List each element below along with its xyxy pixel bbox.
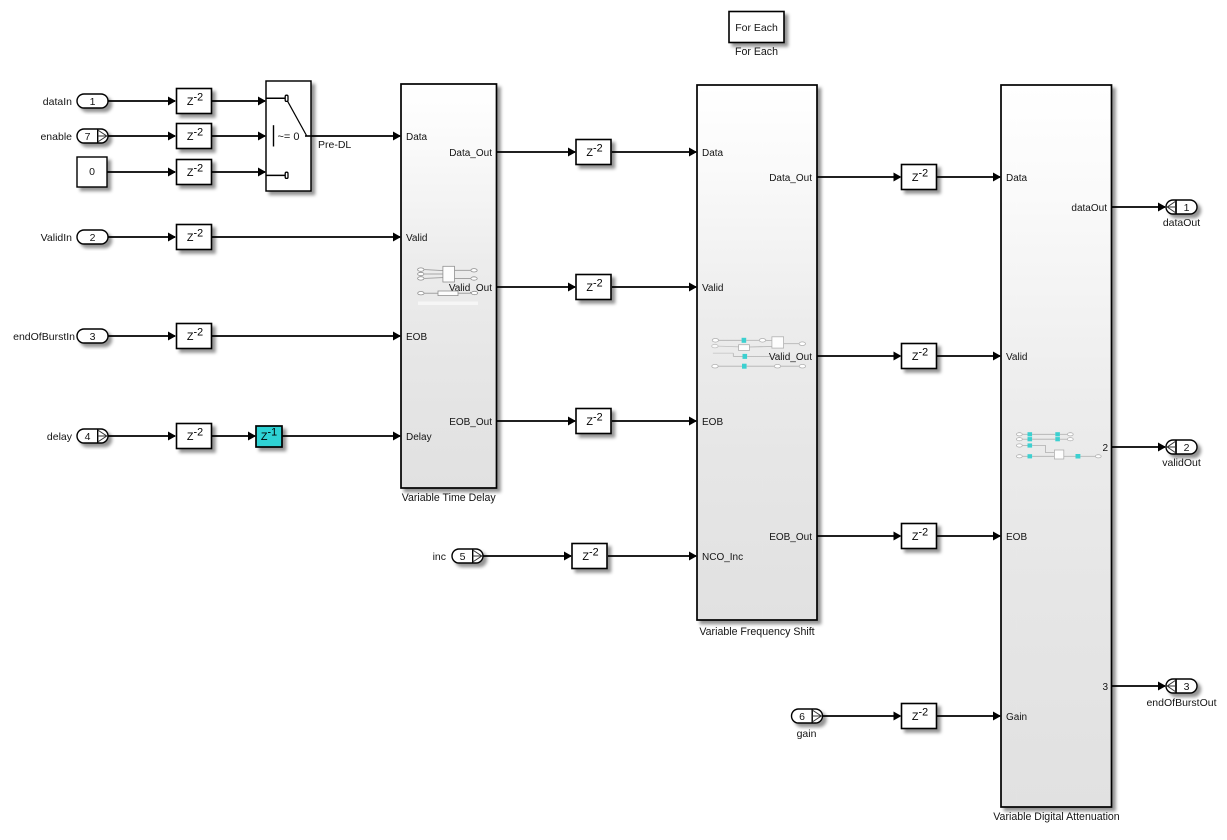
wire Z2_4 to VTD Valid xyxy=(212,233,401,242)
inport inc 5 xyxy=(452,549,483,563)
subsystem VFS icon thumbnail xyxy=(712,337,806,369)
outport endOfBurstOut 3 xyxy=(1166,679,1197,693)
delay Z2_1 xyxy=(177,89,212,114)
svg-text:Data: Data xyxy=(1006,173,1028,184)
delay Z2_4 xyxy=(177,225,212,250)
svg-text:validOut: validOut xyxy=(1162,457,1201,469)
svg-text:endOfBurstOut: endOfBurstOut xyxy=(1146,697,1216,709)
svg-text:7: 7 xyxy=(85,131,91,143)
delay Z2_12 xyxy=(902,344,937,369)
svg-text:1: 1 xyxy=(90,96,96,108)
delay Z2_8 xyxy=(576,275,611,300)
svg-text:6: 6 xyxy=(799,711,805,723)
svg-text:dataOut: dataOut xyxy=(1163,217,1200,229)
svg-text:Valid_Out: Valid_Out xyxy=(769,352,812,363)
svg-text:inc: inc xyxy=(433,551,446,563)
svg-text:NCO_Inc: NCO_Inc xyxy=(702,552,743,563)
subsystem VDA icon thumbnail xyxy=(1017,432,1102,459)
svg-text:Gain: Gain xyxy=(1006,712,1027,723)
delay Z2_2 xyxy=(177,124,212,149)
svg-text:Pre-DL: Pre-DL xyxy=(318,139,351,151)
delay Z2_5 xyxy=(177,324,212,349)
For Each block xyxy=(729,12,784,43)
wire VDA validOut to outport 2 xyxy=(1112,443,1166,452)
inport ValidIn 2 xyxy=(77,230,108,244)
wire Z2_1 to switch input 1 xyxy=(212,97,266,106)
delay Z2_3 xyxy=(177,160,212,185)
delay Z1 cyan xyxy=(256,426,282,447)
svg-text:Data_Out: Data_Out xyxy=(769,173,812,184)
wire Z2_9 to VFS EOB xyxy=(612,417,697,426)
svg-text:4: 4 xyxy=(85,431,91,443)
wire Z1 cyan to VTD Delay xyxy=(282,432,401,441)
delay Z2_7 xyxy=(576,140,611,165)
svg-text:endOfBurstIn: endOfBurstIn xyxy=(13,331,75,343)
wire endOfBurstIn to Z2_5 xyxy=(108,332,176,341)
inport gain 6 xyxy=(792,709,823,723)
svg-text:0: 0 xyxy=(89,166,95,178)
subsystem VTD icon thumbnail xyxy=(418,266,478,305)
svg-text:gain: gain xyxy=(797,728,817,740)
svg-text:Valid: Valid xyxy=(406,233,428,244)
inport endOfBurstIn 3 xyxy=(77,329,108,343)
wire Z2_7 to VFS Data xyxy=(612,148,697,157)
svg-text:Valid: Valid xyxy=(1006,352,1028,363)
wire Z2_8 to VFS Valid xyxy=(612,283,697,292)
delay Z2_10 xyxy=(572,544,607,569)
delay Z2_11 xyxy=(902,165,937,190)
wire Z2_11 to VDA Data xyxy=(937,173,1001,182)
inport dataIn 1 xyxy=(77,94,108,108)
svg-text:2: 2 xyxy=(1184,442,1190,454)
wire VTD EOB_Out to Z2_9 xyxy=(497,417,576,426)
svg-text:EOB: EOB xyxy=(406,332,427,343)
svg-text:3: 3 xyxy=(1102,682,1108,693)
inport enable 7 xyxy=(77,129,108,143)
constant 0 block xyxy=(77,157,107,187)
wire inc to Z2_10 xyxy=(483,552,572,561)
switch Pre-DL xyxy=(266,81,311,191)
wire VFS EOB_Out to Z2_13 xyxy=(817,532,902,541)
svg-text:Variable Digital Attenuation: Variable Digital Attenuation xyxy=(993,811,1120,823)
wire Z2_13 to VDA EOB xyxy=(937,532,1001,541)
wire constant to Z2_3 xyxy=(107,168,176,177)
wire Z2_2 to switch input 2 xyxy=(212,132,266,141)
svg-text:Variable Time Delay: Variable Time Delay xyxy=(402,492,497,504)
svg-text:2: 2 xyxy=(90,232,96,244)
wire Z2_5 to VTD EOB xyxy=(212,332,401,341)
delay Z2_14 xyxy=(902,704,937,729)
wire Z2_3 to switch input 3 xyxy=(212,168,266,177)
wire VFS Data_Out to Z2_11 xyxy=(817,173,902,182)
svg-text:delay: delay xyxy=(47,431,73,443)
wire enable to Z2_2 xyxy=(107,132,176,141)
svg-text:For Each: For Each xyxy=(735,22,778,34)
outport dataOut 1 xyxy=(1166,200,1197,214)
outport validOut 2 xyxy=(1166,440,1197,454)
wire Z2_12 to VDA Valid xyxy=(937,352,1001,361)
subsystem Variable Frequency Shift xyxy=(697,85,817,620)
wire gain to Z2_14 xyxy=(822,712,902,721)
svg-text:EOB: EOB xyxy=(702,417,723,428)
svg-text:dataIn: dataIn xyxy=(43,96,72,108)
wire ValidIn to Z2_4 xyxy=(108,233,176,242)
wire VTD Valid_Out to Z2_8 xyxy=(497,283,576,292)
svg-text:Valid: Valid xyxy=(702,283,724,294)
subsystem Variable Digital Attenuation xyxy=(1001,85,1112,807)
svg-text:3: 3 xyxy=(1184,681,1190,693)
svg-text:1: 1 xyxy=(1184,202,1190,214)
svg-text:Data: Data xyxy=(702,148,724,159)
delay Z2_13 xyxy=(902,524,937,549)
delay Z2_6 xyxy=(177,424,212,449)
svg-text:Delay: Delay xyxy=(406,432,432,443)
wire Z2_6 to Z1 cyan xyxy=(212,432,256,441)
svg-text:3: 3 xyxy=(90,331,96,343)
svg-text:Data: Data xyxy=(406,132,428,143)
inport delay 4 xyxy=(77,429,108,443)
svg-text:2: 2 xyxy=(1102,443,1108,454)
svg-text:EOB_Out: EOB_Out xyxy=(449,417,492,428)
subsystem Variable Time Delay xyxy=(401,84,497,488)
wire dataIn to Z2_1 xyxy=(108,97,176,106)
wire delay to Z2_6 xyxy=(108,432,176,441)
wire VTD Data_Out to Z2_7 xyxy=(497,148,576,157)
wire Pre-DL switch to VTD Data xyxy=(311,132,401,141)
svg-text:5: 5 xyxy=(460,551,466,563)
wire VDA dataOut to outport 1 xyxy=(1112,203,1166,212)
svg-text:dataOut: dataOut xyxy=(1071,203,1107,214)
delay Z2_9 xyxy=(576,409,611,434)
svg-text:For Each: For Each xyxy=(735,46,778,58)
svg-text:EOB: EOB xyxy=(1006,532,1027,543)
svg-text:~= 0: ~= 0 xyxy=(278,131,300,143)
svg-text:Data_Out: Data_Out xyxy=(449,148,492,159)
wire Z2_14 to VDA Gain xyxy=(937,712,1001,721)
svg-text:ValidIn: ValidIn xyxy=(41,232,72,244)
svg-text:Variable Frequency Shift: Variable Frequency Shift xyxy=(699,626,814,638)
svg-text:enable: enable xyxy=(40,131,72,143)
wire Z2_10 to VFS NCO_Inc xyxy=(608,552,697,561)
svg-text:EOB_Out: EOB_Out xyxy=(769,532,812,543)
wire VFS Valid_Out to Z2_12 xyxy=(817,352,902,361)
wire VDA endOfBurstOut to outport 3 xyxy=(1112,682,1166,691)
